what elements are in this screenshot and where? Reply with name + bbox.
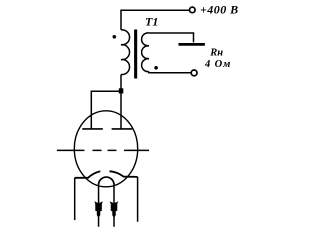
svg-text:+400 В: +400 В	[200, 3, 239, 17]
svg-text:Rн: Rн	[209, 48, 223, 59]
svg-text:Т1: Т1	[145, 14, 158, 28]
svg-text:4 Ом: 4 Ом	[204, 59, 231, 70]
